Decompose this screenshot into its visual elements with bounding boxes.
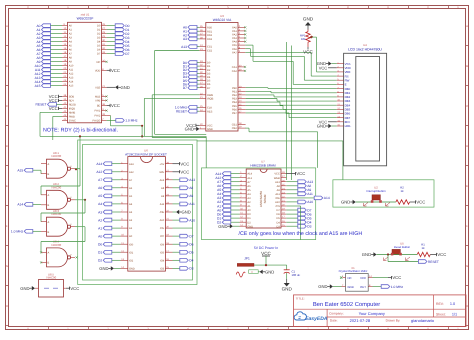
group box ROM — [83, 145, 193, 281]
group box outer memory — [78, 140, 197, 285]
svg-text:A8: A8 — [69, 57, 73, 60]
svg-text:D6: D6 — [207, 83, 211, 86]
svg-text:VCC: VCC — [303, 50, 313, 55]
svg-text:GND: GND — [265, 269, 274, 274]
svg-text:IRQB: IRQB — [207, 98, 214, 101]
svg-text:SYNC: SYNC — [69, 120, 76, 123]
svg-text:100 uF: 100 uF — [292, 273, 301, 277]
svg-text:B: B — [48, 262, 50, 265]
svg-text:GND: GND — [121, 85, 130, 90]
transistor U8.5 74HC00 power part — [39, 272, 64, 297]
svg-text:+: + — [251, 270, 253, 274]
svg-text:A9: A9 — [189, 194, 193, 198]
node 5V DC Power In — [254, 246, 278, 250]
svg-text:A12: A12 — [247, 177, 252, 180]
wire U8.3 output chain — [41, 227, 85, 253]
node A14 input label — [17, 203, 41, 207]
power flag VCC below RP1 — [303, 47, 313, 55]
svg-text:A2: A2 — [98, 218, 102, 222]
svg-text:PB7: PB7 — [232, 112, 237, 115]
ground below C1 — [282, 279, 293, 292]
svg-text:D2: D2 — [98, 259, 102, 263]
svg-text:JP1: JP1 — [244, 256, 250, 260]
svg-text:A6: A6 — [129, 187, 133, 190]
svg-text:A5: A5 — [247, 189, 251, 192]
svg-text:A3: A3 — [129, 211, 133, 214]
svg-text:A15: A15 — [69, 85, 74, 88]
power flag VCC on X1 — [373, 275, 402, 280]
svg-text:A13: A13 — [181, 45, 187, 49]
ground on VSS — [107, 85, 130, 90]
svg-text:VCC: VCC — [360, 276, 366, 280]
svg-text:Y: Y — [70, 254, 72, 257]
svg-text:A: A — [48, 163, 50, 166]
power flag VCC interrupt — [410, 200, 426, 205]
svg-text:1.0 MHz: 1.0 MHz — [391, 285, 404, 289]
svg-text:Interrupt Button: Interrupt Button — [366, 189, 386, 193]
junction bundle node — [141, 135, 143, 137]
svg-text:A6: A6 — [98, 186, 102, 190]
wire PA control lines to LCD — [244, 26, 337, 84]
svg-text:G: G — [466, 264, 468, 268]
svg-text:D7: D7 — [125, 52, 129, 56]
svg-text:RWB: RWB — [207, 94, 213, 97]
svg-text:VCC: VCC — [437, 252, 446, 257]
svg-text:D2: D2 — [207, 69, 211, 72]
svg-text:A6: A6 — [247, 185, 251, 188]
SRAM left pins — [215, 171, 253, 228]
svg-text:A9: A9 — [277, 189, 281, 192]
transistor U8.2 NAND gate 74HC00 — [41, 182, 75, 209]
svg-text:A12: A12 — [96, 170, 102, 174]
svg-text:1.0 MHz: 1.0 MHz — [125, 119, 138, 123]
svg-text:A14: A14 — [129, 163, 134, 166]
svg-text:A2: A2 — [129, 219, 133, 222]
svg-text:AT28C256 ROM ZIF SOCKET: AT28C256 ROM ZIF SOCKET — [125, 152, 167, 156]
VIA port B pins PB0-PB7 — [232, 85, 246, 115]
svg-text:Your Company: Your Company — [359, 311, 385, 316]
svg-text:D5: D5 — [207, 80, 211, 83]
power flag VCC on VDD — [107, 68, 120, 73]
svg-text:/CS: /CS — [275, 205, 280, 208]
svg-text:PB1: PB1 — [232, 90, 237, 93]
svg-text:PHI2: PHI2 — [95, 115, 101, 118]
svg-text:PHI2O: PHI2O — [93, 120, 101, 123]
svg-text:A9: A9 — [69, 61, 73, 64]
svg-text:2021-07-28: 2021-07-28 — [350, 318, 371, 323]
svg-text:A7: A7 — [247, 181, 251, 184]
svg-text:RES: RES — [207, 110, 213, 113]
svg-text:gianotamario: gianotamario — [411, 318, 435, 323]
wire PB data lines to LCD DB0-DB7 — [246, 88, 337, 118]
svg-text:Reset Button: Reset Button — [394, 245, 411, 249]
ROM left pins — [96, 161, 135, 270]
wire U8.2 output chain — [84, 199, 86, 201]
wire SRAM /CS — [286, 206, 300, 240]
svg-text:A11: A11 — [160, 203, 165, 206]
svg-text:VPB: VPB — [95, 100, 100, 103]
svg-text:NMIB: NMIB — [69, 112, 76, 115]
power flag VCC reset — [430, 252, 446, 257]
ground reset — [362, 252, 377, 257]
svg-text:RS0: RS0 — [207, 26, 213, 29]
svg-text:D4: D4 — [189, 259, 193, 263]
svg-text:GND: GND — [247, 225, 253, 228]
ground power input — [258, 269, 274, 274]
svg-text:RESET: RESET — [428, 260, 439, 264]
svg-text:B: B — [48, 173, 50, 176]
svg-text:A4: A4 — [129, 203, 133, 206]
svg-text:+5V: +5V — [160, 163, 165, 166]
svg-text:GND: GND — [282, 287, 293, 292]
VIA RWB IRQB pins — [199, 92, 213, 100]
svg-text:D0: D0 — [97, 25, 101, 28]
svg-text:A12: A12 — [69, 73, 74, 76]
svg-text:A: A — [6, 24, 8, 28]
svg-text:A0: A0 — [69, 25, 73, 28]
svg-text:MLB: MLB — [95, 96, 101, 99]
power flag VCC on ROM +5V — [173, 161, 190, 166]
svg-text:1/1: 1/1 — [452, 313, 457, 317]
svg-text:W65C22 VIA: W65C22 VIA — [213, 18, 232, 22]
wire RWB run — [152, 95, 206, 138]
svg-text:A5: A5 — [69, 45, 73, 48]
svg-text:A12: A12 — [129, 171, 134, 174]
VIA data pins D0-D7 — [183, 60, 211, 90]
svg-text:IO5: IO5 — [160, 251, 165, 254]
svg-text:B: B — [48, 231, 50, 234]
svg-text:D2: D2 — [247, 221, 251, 224]
power flag VCC on RDY — [49, 98, 62, 103]
power flag VCC on SRAM VCC — [286, 171, 305, 176]
svg-text:A0: A0 — [98, 234, 102, 238]
svg-text:D4: D4 — [97, 41, 101, 44]
svg-text:A4: A4 — [69, 41, 73, 44]
svg-text:VCC: VCC — [207, 124, 213, 127]
wire bundle into sram box — [205, 136, 207, 168]
svg-text:A11: A11 — [275, 193, 280, 196]
connector JP1 barrel jack — [236, 256, 258, 277]
op-amp U4 LCD 16x2 HD44780U — [344, 43, 387, 166]
svg-text:GND: GND — [317, 124, 326, 129]
svg-text:D1: D1 — [98, 251, 102, 255]
ground on ROM GND pin — [99, 266, 120, 271]
power flag VCC on U8.5 — [64, 286, 80, 291]
svg-text:PB4: PB4 — [232, 101, 237, 104]
svg-text:C: C — [6, 104, 8, 108]
svg-text:GND: GND — [207, 128, 213, 131]
svg-text:GND: GND — [20, 286, 29, 291]
capacitor C1 100uF — [284, 265, 301, 279]
svg-text:PA5: PA5 — [232, 44, 237, 47]
svg-text:A14: A14 — [96, 162, 102, 166]
node RESET net label — [388, 255, 439, 264]
op-amp U7 SRAM 62256 — [246, 160, 281, 229]
svg-text:GND: GND — [318, 284, 327, 289]
note RDY bidirectional — [43, 127, 118, 133]
svg-text:CA2: CA2 — [232, 70, 238, 73]
svg-text:EasyEDA: EasyEDA — [305, 316, 328, 322]
svg-text:RS3: RS3 — [207, 38, 213, 41]
power flag VCC on LCD VDD — [319, 65, 337, 70]
svg-text:74HC00: 74HC00 — [51, 154, 62, 158]
svg-text:A4: A4 — [247, 193, 251, 196]
svg-text:B: B — [6, 64, 8, 68]
svg-text:GND: GND — [362, 252, 371, 257]
svg-text:PHI1: PHI1 — [95, 110, 101, 113]
svg-text:GND: GND — [341, 200, 350, 205]
svg-text:Company:: Company: — [329, 311, 344, 315]
svg-text:TITLE:: TITLE: — [296, 296, 305, 300]
svg-text:WEB: WEB — [274, 177, 280, 180]
wire CS2 to gate — [155, 51, 207, 135]
svg-text:/WE: /WE — [159, 171, 164, 174]
power flag VCC on SOB — [49, 94, 62, 99]
svg-text:VCC: VCC — [180, 169, 189, 174]
svg-text:A14: A14 — [247, 173, 252, 176]
svg-text:D1: D1 — [247, 217, 251, 220]
ground on X1 GND — [318, 284, 341, 289]
svg-text:A3: A3 — [247, 197, 251, 200]
svg-text:IO7: IO7 — [160, 235, 165, 238]
transistor U8.3 NAND gate 74HC00 — [41, 209, 75, 236]
svg-text:A11: A11 — [69, 69, 74, 72]
svg-text:D5: D5 — [276, 217, 280, 220]
svg-text:Y: Y — [70, 197, 72, 200]
title block grid — [327, 295, 466, 327]
svg-text:A: A — [48, 221, 50, 224]
svg-text:GND: GND — [129, 268, 135, 271]
svg-text:/OE: /OE — [275, 197, 280, 200]
svg-text:PB2: PB2 — [232, 94, 237, 97]
svg-text:A11: A11 — [307, 192, 313, 196]
svg-text:A: A — [48, 252, 50, 255]
ground on LCD LED- — [317, 124, 337, 129]
node A15 input label — [17, 168, 41, 173]
svg-text:A15: A15 — [17, 169, 23, 173]
svg-text:A3: A3 — [69, 37, 73, 40]
svg-text:PB5: PB5 — [232, 105, 237, 108]
svg-text:RS2: RS2 — [207, 34, 213, 37]
svg-text:PA3: PA3 — [232, 37, 237, 40]
resistor R2 1k — [396, 186, 410, 205]
svg-text:CA1: CA1 — [232, 66, 238, 69]
svg-text:CS1: CS1 — [207, 46, 213, 49]
svg-text:OUT: OUT — [360, 285, 366, 289]
svg-text:A1: A1 — [98, 226, 102, 230]
svg-text:VCC: VCC — [49, 106, 58, 111]
svg-text:A8: A8 — [277, 185, 281, 188]
svg-text:G: G — [6, 264, 8, 268]
svg-text:PB6: PB6 — [232, 108, 237, 111]
svg-text:Crystal Oscillator 1Mhz: Crystal Oscillator 1Mhz — [339, 269, 368, 273]
wire bus bundle — [40, 135, 206, 137]
svg-text:D6: D6 — [97, 49, 101, 52]
svg-text:74HC00: 74HC00 — [46, 275, 57, 279]
svg-text:NC: NC — [97, 61, 101, 64]
svg-text:Sheet:: Sheet: — [436, 313, 446, 317]
svg-text:A14: A14 — [17, 203, 23, 207]
svg-text:RESET: RESET — [176, 110, 187, 114]
svg-text:A13: A13 — [160, 179, 165, 182]
svg-text:B: B — [466, 64, 468, 68]
svg-text:IO1: IO1 — [129, 251, 134, 254]
title text — [296, 296, 458, 323]
svg-text:/OE: /OE — [160, 211, 165, 214]
svg-text:A7: A7 — [129, 179, 133, 182]
svg-text:1.0 MHz: 1.0 MHz — [11, 230, 24, 234]
op-amp U3 VIA W65C22 — [206, 14, 238, 131]
svg-text:D7: D7 — [189, 234, 193, 238]
svg-text:VCC: VCC — [296, 171, 305, 176]
svg-text:REV:: REV: — [436, 302, 444, 306]
svg-text:D7: D7 — [276, 209, 280, 212]
wire power rail — [254, 264, 287, 266]
op-amp U1 CPU W65C02SP — [68, 13, 102, 123]
svg-text:74HC00: 74HC00 — [51, 243, 62, 247]
svg-text:A1: A1 — [129, 227, 133, 230]
svg-text:PB3: PB3 — [232, 98, 237, 101]
VIA port A pins PA0-PA7 — [232, 25, 245, 55]
svg-text:RS1: RS1 — [207, 30, 213, 33]
svg-text:D3: D3 — [307, 225, 311, 229]
push button U2 interrupt — [356, 186, 396, 207]
ground on SRAM GND — [218, 224, 239, 229]
svg-text:VCC: VCC — [416, 200, 425, 205]
svg-text:CB1: CB1 — [232, 124, 238, 127]
svg-text:PA7: PA7 — [232, 51, 237, 54]
note CE goes low — [239, 231, 363, 237]
svg-text:D6: D6 — [276, 213, 280, 216]
oscillator X1 crystal 1MHz — [339, 266, 373, 291]
svg-text:RDY: RDY — [69, 100, 75, 103]
CPU control pins SOB RDY RESB IRQB NMIB RWB SYNC — [62, 94, 76, 123]
svg-text:D0: D0 — [98, 243, 102, 247]
svg-text:IO2: IO2 — [129, 259, 134, 262]
svg-text:F: F — [6, 224, 8, 228]
svg-text:SOB: SOB — [69, 96, 75, 99]
svg-text:A5: A5 — [98, 194, 102, 198]
CPU right misc pins — [93, 59, 108, 122]
power flag VCC on BE — [107, 103, 120, 108]
power flag VCC on NMIB — [49, 106, 62, 111]
svg-text:IO4: IO4 — [160, 259, 165, 262]
ground on ROM /OE — [173, 210, 191, 215]
power flag VCC on ROM /WE — [173, 169, 190, 174]
svg-text:F: F — [466, 224, 468, 228]
svg-text:A8: A8 — [161, 187, 165, 190]
svg-text:GND: GND — [185, 127, 194, 132]
svg-text:A1: A1 — [69, 29, 73, 32]
svg-text:A2: A2 — [69, 33, 73, 36]
svg-text:VCC: VCC — [70, 286, 79, 291]
svg-text:A1: A1 — [247, 205, 251, 208]
svg-text:CLK: CLK — [207, 106, 212, 109]
svg-text:E: E — [466, 184, 468, 188]
wire IRQB run — [144, 98, 199, 136]
node RESET label on RESB — [36, 103, 63, 107]
svg-text:VSS: VSS — [95, 86, 100, 89]
svg-text:D7: D7 — [207, 87, 211, 90]
group box interrupt — [333, 180, 434, 207]
svg-text:A8: A8 — [189, 186, 193, 190]
op-amp U6 ROM AT28C256 ZIF socket — [125, 149, 167, 272]
svg-text:D: D — [6, 144, 8, 148]
svg-text:A4: A4 — [98, 202, 102, 206]
svg-text:Date:: Date: — [330, 319, 338, 323]
svg-text:A15: A15 — [35, 84, 41, 88]
svg-text:A5: A5 — [129, 195, 133, 198]
svg-text:D3: D3 — [189, 267, 193, 271]
svg-text:RWB: RWB — [69, 116, 75, 119]
svg-text:CS2: CS2 — [207, 50, 213, 53]
svg-text:VCC: VCC — [274, 173, 280, 176]
svg-text:PB0: PB0 — [232, 87, 237, 90]
svg-text:NOTE: RDY (2) is bi-directiona: NOTE: RDY (2) is bi-directional. — [43, 127, 118, 133]
svg-text:A13: A13 — [189, 178, 195, 182]
EasyEDA logo — [294, 312, 328, 322]
svg-text:D6: D6 — [189, 243, 193, 247]
svg-text:A6: A6 — [69, 49, 73, 52]
svg-text:D5: D5 — [97, 45, 101, 48]
svg-text:D3: D3 — [207, 72, 211, 75]
svg-text:Ben Eater 6502 Computer: Ben Eater 6502 Computer — [313, 301, 380, 308]
wire RP1 wiper to LCD VEE — [311, 37, 337, 72]
svg-text:5V DC Power In: 5V DC Power In — [254, 246, 278, 250]
svg-text:D7: D7 — [97, 53, 101, 56]
svg-text:A10: A10 — [275, 201, 280, 204]
svg-text:GND: GND — [182, 210, 191, 215]
svg-text:D1: D1 — [207, 65, 211, 68]
svg-text:A7: A7 — [98, 178, 102, 182]
wire SRAM /OE — [286, 196, 330, 200]
svg-text:CB2: CB2 — [232, 127, 238, 130]
node address bus labels A0-A15 — [35, 23, 74, 88]
svg-text:VCC: VCC — [111, 68, 120, 73]
svg-text:BE: BE — [97, 105, 101, 108]
svg-text:Y: Y — [70, 166, 72, 169]
svg-text:D1: D1 — [97, 29, 101, 32]
svg-text:D3: D3 — [97, 37, 101, 40]
wire PHI2 clock — [107, 116, 143, 126]
junction RP1 wiper — [310, 36, 312, 38]
node 1.0 MHz input label — [11, 230, 41, 234]
svg-text:A10: A10 — [69, 65, 74, 68]
svg-text:IRQB: IRQB — [69, 108, 76, 111]
VIA power pins — [185, 123, 213, 132]
SRAM right pins — [274, 171, 313, 228]
svg-text:PA6: PA6 — [232, 48, 237, 51]
ground above RP1 — [303, 17, 314, 30]
wire to interrupt box — [197, 141, 343, 180]
svg-text:D0: D0 — [247, 213, 251, 216]
svg-text:SRAM: SRAM — [263, 194, 267, 203]
svg-text:A10: A10 — [189, 218, 195, 222]
wire U8.1 output chain — [75, 168, 77, 170]
resistor RP1 10k potentiometer — [300, 30, 313, 48]
power flag VCC input — [261, 251, 271, 265]
VIA left pins — [183, 25, 213, 41]
svg-text:HM62256B SRAM: HM62256B SRAM — [250, 163, 276, 167]
svg-text:IO0: IO0 — [129, 243, 134, 246]
svg-text:A7: A7 — [69, 53, 73, 56]
svg-text:A: A — [466, 24, 468, 28]
svg-text:D2: D2 — [97, 33, 101, 36]
svg-text:RESET: RESET — [36, 103, 47, 107]
svg-text:A13: A13 — [275, 181, 280, 184]
svg-text:A13: A13 — [69, 77, 74, 80]
wire RDY route — [53, 116, 62, 140]
